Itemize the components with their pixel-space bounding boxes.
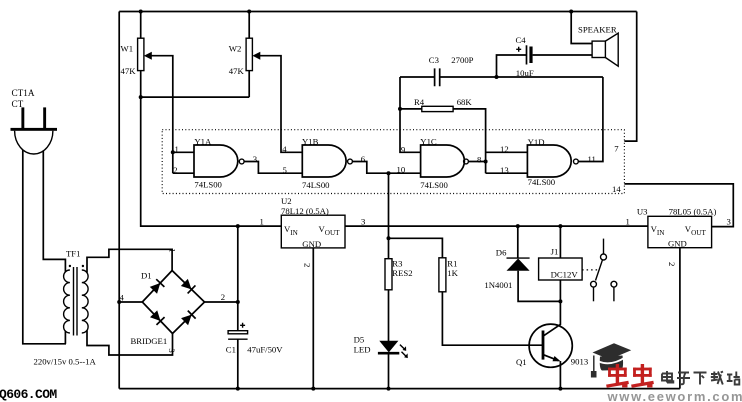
wire Y1B pin 6 to Y1C pin 10 (352, 162, 420, 174)
nand-gate Y1C (421, 145, 465, 177)
node W1 bottom junction (139, 95, 143, 99)
wire W1-W2 bottom link (141, 96, 250, 98)
watermark dianzi xiazaizhan gray characters (662, 371, 740, 385)
watermark chongchong red character 2 (631, 364, 654, 388)
svg-text:www.eeworm.com: www.eeworm.com (607, 389, 742, 402)
svg-text:78L12 (0.5A): 78L12 (0.5A) (281, 206, 329, 216)
wire pin 14 to U3 output (624, 184, 733, 227)
wire secondary top lead to bridge pin 1 (87, 249, 172, 272)
svg-text:4: 4 (282, 144, 287, 154)
speaker SPEAKER (592, 41, 605, 57)
node Y1A input junction (171, 150, 175, 154)
regulator U3 78L05 (648, 216, 712, 247)
svg-text:7: 7 (614, 144, 619, 154)
nand-gate Y1B (302, 145, 346, 177)
svg-text:1: 1 (168, 248, 178, 252)
svg-text:1: 1 (175, 144, 179, 154)
svg-text:8: 8 (477, 154, 482, 164)
svg-text:U3: U3 (637, 207, 648, 217)
wire C3/R4 left vertical to Y1C pin 9 (400, 77, 421, 152)
svg-text:DC12V: DC12V (551, 269, 579, 279)
wire Y1C pin 8 to Y1D pins 12,13 (468, 152, 527, 173)
transformer TF1 core (74, 267, 78, 336)
wire C3 right lead to Y1D output (440, 76, 603, 78)
node bridge pin 2 junction (236, 300, 240, 304)
node J1 supply junction (558, 224, 562, 228)
capacitor C4 (526, 45, 528, 64)
resistor R3 (385, 259, 392, 290)
transformer TF1 secondary winding (82, 270, 88, 333)
svg-text:1K: 1K (447, 268, 458, 278)
node C4 branch junction (495, 75, 499, 79)
node Y1B output to R3 junction (387, 171, 391, 175)
svg-text:TF1: TF1 (66, 248, 80, 258)
label C1 plus polarity (240, 323, 245, 328)
wire R1 branch (389, 238, 443, 257)
transformer TF1 phase dots (69, 265, 71, 267)
svg-text:Y1D: Y1D (528, 137, 545, 147)
svg-text:C3: C3 (429, 55, 439, 65)
svg-text:10: 10 (397, 165, 406, 175)
svg-text:74LS00: 74LS00 (302, 180, 330, 190)
relay J1 mechanical dashed link (582, 269, 600, 271)
transformer TF1 primary winding (64, 270, 70, 333)
svg-text:74LS00: 74LS00 (194, 180, 222, 190)
diode D1 top-left element (149, 279, 164, 294)
wire W1 top lead (140, 12, 142, 39)
wire W1 bottom down to DC node (141, 97, 238, 226)
node Q1 collector junction (558, 299, 562, 303)
wire D5 cathode to ground rail (388, 355, 390, 389)
svg-text:1: 1 (626, 217, 630, 227)
AC plug CT1A (11, 107, 58, 154)
wire W2 bottom lead (248, 71, 250, 98)
wire C4 right lead to speaker (533, 54, 593, 56)
svg-text:D1: D1 (141, 270, 152, 280)
node Q1 emitter ground junction (558, 387, 562, 391)
wire W2 top lead (248, 12, 250, 39)
wire R4 right lead down to Y1C output node (453, 109, 486, 173)
svg-text:CT: CT (12, 99, 24, 109)
svg-text:47K: 47K (121, 66, 137, 76)
bridge rectifier D1 diamond (142, 271, 204, 334)
regulator U2 78L12 (281, 215, 345, 248)
diode D1 bottom-right element (181, 311, 196, 326)
wire U2 pin 3 output rail to U3 pin 1 (345, 225, 648, 227)
svg-text:2: 2 (667, 262, 677, 266)
svg-text:2: 2 (173, 165, 177, 175)
wire Y1D output up to C3 line (579, 77, 603, 162)
svg-text:W1: W1 (121, 43, 134, 53)
diode D1 bottom-left element (150, 310, 165, 325)
svg-text:J1: J1 (551, 247, 559, 257)
svg-text:GND: GND (302, 239, 321, 249)
wire plug left cord to transformer primary bottom (23, 150, 66, 344)
watermark graduation cap icon (591, 343, 631, 377)
svg-text:12: 12 (500, 144, 509, 154)
wire R1 bottom to Q1 base (442, 292, 543, 345)
svg-text:R4: R4 (414, 97, 425, 107)
wire D6 top lead (517, 226, 519, 258)
node D5 ground junction (387, 387, 391, 391)
svg-text:220v/15v 0.5--1A: 220v/15v 0.5--1A (34, 357, 97, 367)
relay J1 contact left terminal (591, 281, 597, 287)
svg-text:Q606.COM: Q606.COM (0, 387, 57, 402)
svg-text:68K: 68K (457, 97, 473, 107)
svg-text:47uF/50V: 47uF/50V (247, 344, 283, 354)
svg-text:5: 5 (283, 165, 287, 175)
svg-text:C1: C1 (226, 344, 236, 354)
wire U2 pin 1 stub (238, 225, 281, 227)
wire plug right cord to transformer primary top (43, 151, 65, 272)
wire bridge pin 2 lead to C1 line (205, 301, 238, 303)
wire primary bottom lead (64, 331, 66, 344)
resistor R1 (439, 258, 446, 292)
dashed selection box around 74LS00 gates (162, 130, 624, 194)
wire C4 left lead to C3 node (497, 55, 527, 77)
wire Y1A pin 3 to Y1B pin 5 (244, 162, 302, 174)
wire Y1B output down to R3 (388, 173, 390, 259)
svg-text:C4: C4 (516, 35, 527, 45)
node bridge pin 4 junction (117, 300, 121, 304)
wire C1 bottom lead (237, 339, 239, 388)
diode D1 top-right element (180, 278, 195, 293)
wire secondary bottom lead to bridge pin 3 (87, 330, 173, 355)
svg-text:9: 9 (401, 144, 405, 154)
wire W2 wiper to Y1B pin 4 (255, 56, 303, 153)
svg-text:CT1A: CT1A (12, 88, 35, 98)
resistor R4 (422, 106, 453, 111)
node W1 top junction (139, 10, 143, 14)
svg-text:14: 14 (612, 184, 621, 194)
svg-text:11: 11 (588, 154, 596, 164)
svg-text:2700P: 2700P (451, 55, 473, 65)
wire J1 coil bottom lead (559, 280, 561, 301)
wire top supply rail (119, 11, 637, 13)
relay J1 contact pole (603, 239, 605, 254)
nand-gate Y1D (527, 145, 571, 177)
svg-text:3: 3 (727, 217, 731, 227)
diode D6 1N4001 (507, 257, 530, 259)
wire speaker feed from top rail (571, 12, 592, 44)
svg-text:1N4001: 1N4001 (484, 280, 512, 290)
svg-text:78L05 (0.5A): 78L05 (0.5A) (669, 207, 717, 217)
capacitor C3 (435, 68, 440, 86)
wire DC plus vertical through C1 (237, 226, 239, 331)
svg-text:6: 6 (361, 154, 366, 164)
relay J1 contact right terminal (611, 281, 617, 287)
led D5 (379, 341, 398, 353)
watermark chongchong red character 1 (606, 364, 629, 388)
svg-text:W2: W2 (229, 43, 242, 53)
wire Y1A pin 1 stub (173, 151, 194, 153)
capacitor C1 (228, 331, 248, 334)
wire D6 anode to Q1 collector node (518, 271, 560, 302)
svg-text:47K: 47K (229, 66, 245, 76)
wire bottom ground rail (119, 388, 680, 390)
transistor Q1 emitter lead with arrow (543, 355, 559, 361)
svg-text:3: 3 (167, 348, 177, 352)
svg-text:3: 3 (361, 217, 365, 227)
wire left vertical rail (top rail to bottom rail) (118, 12, 120, 389)
svg-text:74LS00: 74LS00 (420, 180, 448, 190)
svg-text:BRIDGE1: BRIDGE1 (131, 336, 168, 346)
svg-text:1: 1 (260, 217, 264, 227)
potentiometer W2 (246, 38, 252, 70)
transistor Q1 9013 (529, 324, 572, 367)
nand-gate Y1A (194, 145, 238, 177)
wire R3 bottom to LED D5 (388, 290, 390, 341)
svg-text:SPEAKER: SPEAKER (578, 24, 617, 34)
wire U2 pin 2 ground lead (312, 248, 314, 389)
transistor Q1 collector lead (543, 301, 560, 336)
wire C3 left lead (400, 76, 435, 78)
node D6 supply junction (516, 224, 520, 228)
led D5 emission arrows (400, 345, 407, 357)
node R1 branch junction (387, 236, 391, 240)
node speaker feed junction (569, 10, 573, 14)
wire Q1 emitter to ground rail (559, 361, 561, 389)
relay J1 contact arm (596, 260, 603, 281)
svg-text:U2: U2 (281, 196, 292, 206)
svg-text:Q1: Q1 (516, 357, 527, 367)
svg-text:74LS00: 74LS00 (528, 177, 556, 187)
wire Y1A pin 2 stub (173, 172, 194, 174)
wire J1 coil top lead (559, 226, 561, 258)
node C1 ground junction (236, 387, 240, 391)
svg-text:D6: D6 (496, 248, 507, 258)
node U2 ground junction (311, 387, 315, 391)
svg-text:GND: GND (668, 238, 687, 248)
svg-text:2: 2 (303, 263, 313, 267)
svg-text:RES2: RES2 (392, 268, 412, 278)
node Y1C output junction (484, 160, 488, 164)
svg-text:Y1B: Y1B (302, 136, 319, 146)
svg-text:LED: LED (354, 345, 371, 355)
svg-text:13: 13 (500, 165, 509, 175)
node W2 top junction (247, 10, 251, 14)
svg-text:D5: D5 (354, 334, 365, 344)
svg-text:Y1C: Y1C (420, 136, 437, 146)
relay J1 coil box (539, 258, 583, 280)
wire R4 left lead (400, 108, 422, 110)
svg-text:Y1A: Y1A (194, 136, 212, 146)
svg-text:9013: 9013 (571, 357, 588, 367)
label C4 plus polarity (516, 47, 521, 52)
node DC plus top junction (236, 224, 240, 228)
svg-text:3: 3 (253, 154, 257, 164)
node R4 left junction (398, 107, 402, 111)
wire U3 ground riser (679, 248, 681, 389)
potentiometer W1 (138, 38, 144, 70)
wire W1 bottom lead (140, 71, 142, 98)
wire W1 wiper to Y1A pins 1,2 (146, 56, 173, 174)
svg-text:2: 2 (221, 292, 225, 302)
wire bridge pin 4 lead to left rail (119, 301, 142, 303)
wire pin 7 to top rail (624, 12, 636, 142)
